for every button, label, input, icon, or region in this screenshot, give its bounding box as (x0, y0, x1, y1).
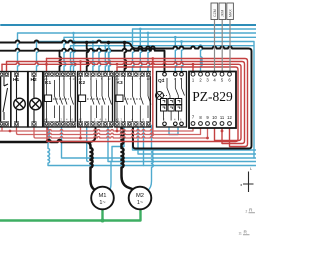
svg-text:12: 12 (227, 115, 232, 120)
PZ terminal numbers bottom (192, 115, 233, 121)
wire cyan drop K2 mid (93, 41, 95, 73)
svg-text:1~: 1~ (99, 200, 105, 206)
module Q1 breaker (157, 72, 187, 128)
module terminals bottom row (0, 122, 4, 126)
wire cyan K2 drop (87, 125, 89, 161)
svg-text:PZ-829: PZ-829 (192, 89, 233, 104)
svg-text:10: 10 (212, 115, 217, 120)
wire red control top line c (2, 63, 241, 141)
wire black feed motor M1 (0, 140, 94, 190)
wire cyan feed motor M2 (147, 126, 153, 191)
junction red dots top (45, 63, 48, 66)
breaker Q1 symbol (156, 78, 185, 121)
wire N bus line 3 (18, 33, 257, 73)
wire black drop K2 a (87, 42, 89, 73)
junction black dot (107, 41, 110, 44)
wire cyan drop K3 c (148, 33, 150, 73)
probes top right (211, 3, 233, 20)
PZ terminal numbers top (192, 78, 232, 83)
motor M1 (91, 187, 114, 210)
wire red vertical gap K3-Q1 (152, 59, 154, 135)
PZ terminals top (191, 72, 231, 76)
svg-text:CZM: CZM (213, 9, 217, 17)
wire cyan bundle line 1b (61, 125, 256, 158)
wire cyan drop K2 right (105, 46, 107, 73)
contactor K1 symbol (45, 76, 74, 122)
wire cyan drop to K2 terminals (99, 46, 101, 74)
svg-text:M1: M1 (98, 193, 106, 199)
svg-text:A2: A2 (116, 117, 120, 121)
junction green dot (100, 218, 104, 222)
wire cyan riser PZ terminal 2 (201, 46, 203, 73)
svg-text:2: 2 (245, 210, 247, 214)
wire red riser PZ terminal 1 (192, 64, 194, 72)
wire cyan drop Q1 a (175, 37, 177, 73)
svg-text:A1: A1 (116, 77, 120, 81)
module K2 contactor (78, 71, 113, 127)
wire cyan drop Q1 b (182, 42, 184, 74)
wire cyan bottom bundle line 2 (138, 126, 256, 155)
module terminals top row (0, 72, 4, 76)
module H1 lamp (11, 71, 28, 127)
wire black drop K2 b (109, 42, 111, 73)
module labels (13, 77, 165, 86)
junction red dots bottom (9, 130, 12, 133)
wire cyan bottom bundle line 3 (108, 125, 256, 161)
PZ terminals bottom (191, 122, 231, 126)
wire phase black A top (0, 40, 252, 148)
probe sensor 3 (227, 3, 234, 20)
PZ-829 relay box (189, 72, 236, 129)
switch symbol in S1 (3, 77, 8, 120)
wire cyan bottom bundle line 1 (132, 126, 256, 151)
contactor K3 symbol (116, 76, 151, 122)
wire red bottom line 3 (34, 125, 208, 138)
wire red drop K2 A1 (80, 61, 82, 73)
wire cyan drop K1 aux (74, 33, 76, 73)
well electrode symbol bottom right (240, 172, 253, 193)
wire red control top line a (46, 58, 247, 146)
wire black drop K3 (125, 42, 127, 73)
wire N bus line 4 (64, 37, 256, 73)
lamp H1 (14, 76, 26, 122)
svg-text:JKM: JKM (221, 10, 225, 17)
module K3 contactor (115, 71, 151, 127)
svg-text:11: 11 (220, 115, 225, 120)
wire PE green (0, 209, 140, 220)
junction cyan dots (139, 28, 142, 31)
svg-text:M2: M2 (136, 193, 144, 199)
wire N bus line 6 (71, 46, 254, 74)
lamp H2 (30, 76, 42, 122)
wire red bottom line 2 (16, 125, 200, 134)
wire phase black B (0, 49, 165, 74)
wire cyan U loop under Q1 (169, 126, 178, 135)
wire black drop K1 (60, 51, 62, 74)
module S1 (switch) (1, 71, 11, 127)
wire red bottom line 1 (0, 126, 193, 131)
wire N bus line 5 (turns down right edge) (36, 41, 254, 158)
wire cyan bottom bundle line 4 (48, 125, 256, 165)
wire red drop S bottom (1, 125, 3, 131)
probe wires gray (215, 20, 231, 73)
junction black dot 2 (85, 41, 88, 44)
contactor K2 symbol (79, 76, 112, 122)
probe sensor 2 (219, 3, 226, 20)
wire red drop K2 A2 (79, 125, 81, 138)
wire red drop K1 A1 (46, 58, 48, 73)
wire N bus line 2 (133, 29, 257, 73)
wire cyan feed motor M1 (109, 161, 111, 190)
module H2 lamp (28, 71, 42, 127)
wire red drop K3 A2 (116, 125, 118, 131)
svg-text:L: L (250, 167, 252, 171)
wire cyan drop K3 b (140, 29, 142, 73)
svg-text:1~: 1~ (137, 200, 143, 206)
wire black feed motor M2 (121, 125, 133, 189)
svg-text:MAX: MAX (228, 9, 232, 17)
wire red drop S (1, 64, 3, 73)
wire black K2 bottom hook (90, 125, 96, 142)
wire cyan drop to K2 aux (109, 46, 111, 74)
wire red drop K3 A1 (116, 67, 118, 73)
wire N bus top line 1 (1, 24, 256, 26)
wire red control top line b (6, 61, 244, 143)
wire red control top line d (47, 67, 238, 142)
tiny terminal labels K1 (45, 77, 183, 122)
svg-text:11: 11 (238, 232, 242, 236)
probe sensor 1 (211, 3, 218, 20)
wire cyan K2 loop (112, 125, 124, 161)
motor M2 (129, 187, 152, 210)
module K1 contactor (44, 71, 76, 127)
